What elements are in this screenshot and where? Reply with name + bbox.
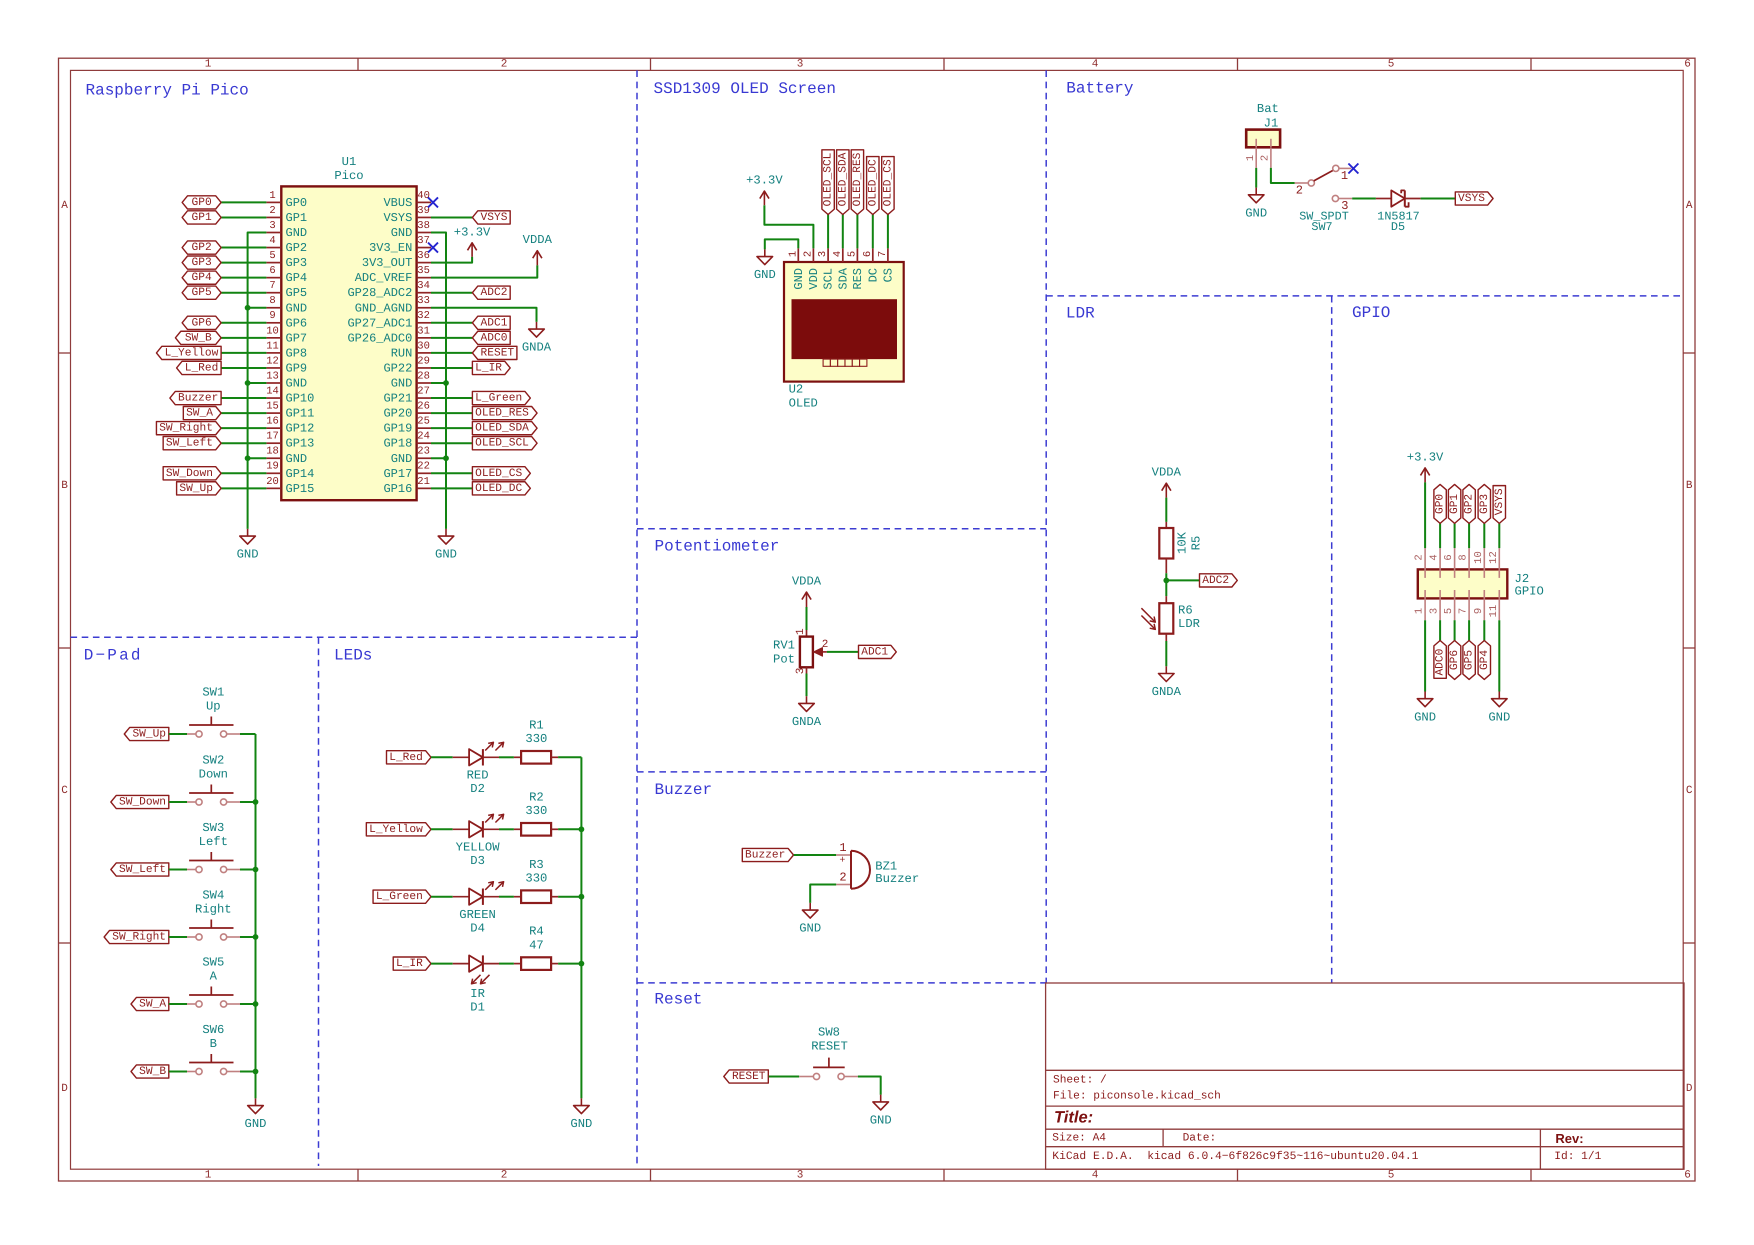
buzzer BZ1 bbox=[836, 854, 851, 856]
wire ADC_VREF to VDDA bbox=[431, 265, 537, 277]
svg-text:GP2: GP2 bbox=[192, 242, 212, 254]
global label L_IR bbox=[472, 361, 510, 374]
svg-text:18: 18 bbox=[266, 446, 279, 458]
wire OLED GND bbox=[765, 239, 799, 249]
wire L_IR to D1 bbox=[431, 963, 453, 965]
power VDDA (pot) bbox=[806, 592, 808, 607]
svg-text:OLED_SCL: OLED_SCL bbox=[823, 152, 835, 206]
section divider Battery bottom bbox=[1046, 295, 1683, 297]
svg-text:25: 25 bbox=[417, 416, 430, 428]
wire pin 19 to label SW_Down bbox=[221, 472, 266, 474]
junction D-Pad bus bbox=[253, 1069, 259, 1075]
U2 pins 1-7 bbox=[797, 248, 799, 262]
junction pin 28 bbox=[443, 380, 449, 386]
power +3.3V (GPIO) bbox=[1424, 482, 1426, 548]
wire right GND bus bbox=[431, 233, 446, 529]
svg-text:GP4: GP4 bbox=[286, 271, 308, 285]
wire SW3 to bus bbox=[227, 869, 241, 871]
svg-text:ADC0: ADC0 bbox=[1435, 648, 1447, 675]
svg-text:2: 2 bbox=[1296, 183, 1303, 197]
junction pin 13 bbox=[245, 380, 251, 386]
svg-text:VSYS: VSYS bbox=[383, 211, 412, 225]
J2 top pins 2,4,6,8,10,12 bbox=[1424, 548, 1426, 569]
svg-text:12: 12 bbox=[1488, 551, 1500, 564]
svg-text:Sheet: /: Sheet: / bbox=[1053, 1073, 1107, 1086]
svg-text:GND: GND bbox=[435, 548, 457, 562]
svg-text:GND: GND bbox=[391, 452, 413, 466]
J2 GPIO body bbox=[1418, 569, 1508, 598]
svg-text:VSYS: VSYS bbox=[1494, 488, 1506, 515]
svg-text:GP12: GP12 bbox=[286, 422, 315, 436]
svg-text:1: 1 bbox=[205, 59, 212, 71]
svg-text:32: 32 bbox=[417, 310, 430, 322]
svg-text:ADC_VREF: ADC_VREF bbox=[355, 271, 413, 285]
svg-text:LDR: LDR bbox=[1066, 304, 1095, 322]
svg-text:3: 3 bbox=[797, 1169, 804, 1181]
wire R6 to GNDA bbox=[1165, 641, 1167, 666]
LED D2 RED bbox=[453, 756, 469, 758]
wire pin 25 to label OLED_SDA bbox=[431, 427, 472, 429]
no-connect bbox=[428, 243, 438, 253]
junction D-Pad bus bbox=[253, 867, 259, 873]
svg-text:330: 330 bbox=[525, 732, 547, 746]
svg-text:5: 5 bbox=[1388, 59, 1395, 71]
wire Buzzer to BZ1 pin1 bbox=[794, 854, 836, 856]
svg-text:LEDs: LEDs bbox=[334, 647, 372, 665]
power VDDA (U1) bbox=[536, 251, 538, 266]
title block outline bbox=[1046, 983, 1684, 1169]
svg-text:GP13: GP13 bbox=[286, 437, 315, 451]
global label L_Green (led) bbox=[373, 890, 431, 903]
svg-text:GP2: GP2 bbox=[1464, 494, 1476, 514]
U2 OLED body bbox=[784, 262, 904, 382]
svg-text:A: A bbox=[210, 970, 218, 984]
svg-text:26: 26 bbox=[417, 401, 430, 413]
section divider LDR|GPIO bbox=[1331, 296, 1333, 983]
svg-text:4: 4 bbox=[1092, 1169, 1099, 1181]
svg-text:Pico: Pico bbox=[334, 169, 363, 183]
wire GND pin 8 bbox=[248, 307, 267, 309]
global label SW_B bbox=[175, 331, 221, 344]
switch SW3 Left bbox=[196, 866, 202, 872]
svg-text:D1: D1 bbox=[470, 1001, 485, 1015]
svg-text:RV1: RV1 bbox=[773, 639, 795, 653]
J1 Bat connector body bbox=[1246, 130, 1280, 148]
svg-text:SW_A: SW_A bbox=[139, 999, 166, 1011]
svg-text:SW4: SW4 bbox=[202, 888, 224, 902]
svg-text:1: 1 bbox=[1414, 608, 1426, 614]
svg-text:9: 9 bbox=[1473, 608, 1485, 614]
svg-text:2: 2 bbox=[822, 639, 829, 651]
svg-text:DC: DC bbox=[866, 268, 880, 282]
svg-text:GP0: GP0 bbox=[286, 196, 308, 210]
svg-text:SW1: SW1 bbox=[202, 685, 224, 699]
ground GND (GPIO pin1) bbox=[1424, 692, 1426, 699]
svg-text:OLED_DC: OLED_DC bbox=[475, 483, 522, 495]
svg-text:+3.3V: +3.3V bbox=[454, 225, 491, 239]
svg-text:IR: IR bbox=[470, 987, 485, 1001]
svg-text:U1: U1 bbox=[342, 155, 357, 169]
power +3.3V (U1) bbox=[471, 243, 473, 257]
svg-text:Size: A4: Size: A4 bbox=[1052, 1132, 1106, 1145]
frame column ticks bottom bbox=[357, 1169, 359, 1181]
resistor R6 LDR bbox=[1159, 603, 1173, 634]
ground GND (LEDs) bbox=[580, 1098, 582, 1105]
svg-text:6: 6 bbox=[269, 265, 275, 277]
wire pin 7 to label GP5 bbox=[221, 292, 266, 294]
svg-text:OLED_SCL: OLED_SCL bbox=[475, 438, 529, 450]
SW7 pin 3 bbox=[1332, 195, 1338, 201]
wire pin 15 to label SW_A bbox=[221, 412, 266, 414]
section divider D-Pad/LEDs top bbox=[71, 636, 638, 638]
svg-text:37: 37 bbox=[417, 235, 430, 247]
wire J2 bottom GP6 bbox=[1454, 620, 1456, 640]
svg-text:28: 28 bbox=[417, 370, 430, 382]
wire pin 27 to label L_Green bbox=[431, 397, 472, 399]
U1 Pico body bbox=[281, 186, 416, 500]
svg-text:GND: GND bbox=[391, 226, 413, 240]
frame row ticks left bbox=[59, 352, 71, 354]
svg-text:File: piconsole.kicad_sch: File: piconsole.kicad_sch bbox=[1053, 1090, 1221, 1103]
svg-text:GP8: GP8 bbox=[286, 346, 308, 360]
section divider vertical x=1046 bbox=[1045, 70, 1047, 983]
svg-text:B: B bbox=[61, 480, 68, 492]
J1 pin 2 bbox=[1270, 147, 1272, 168]
svg-text:ADC1: ADC1 bbox=[481, 317, 508, 329]
wire D5 to VSYS bbox=[1421, 198, 1456, 200]
wire SW_Down to SW2 bbox=[169, 801, 187, 803]
R6 bottom stub bbox=[1165, 634, 1167, 641]
svg-text:GND: GND bbox=[570, 1117, 592, 1131]
svg-text:15: 15 bbox=[266, 401, 279, 413]
svg-text:6: 6 bbox=[1684, 59, 1691, 71]
svg-text:9: 9 bbox=[269, 310, 275, 322]
wire pin 29 to label L_IR bbox=[431, 367, 472, 369]
wire R4 to bus bbox=[551, 963, 558, 965]
wire pin 14 to label Buzzer bbox=[221, 397, 266, 399]
svg-text:1: 1 bbox=[839, 841, 846, 855]
svg-text:GP3: GP3 bbox=[1479, 494, 1491, 514]
wire J2 bottom GP4 bbox=[1483, 620, 1485, 640]
svg-text:GND: GND bbox=[792, 268, 806, 290]
svg-text:GND: GND bbox=[286, 452, 308, 466]
junction D-Pad bus bbox=[253, 799, 259, 805]
global label ADC0 (GPIO) bbox=[1434, 641, 1446, 679]
svg-text:Id: 1/1: Id: 1/1 bbox=[1554, 1150, 1601, 1163]
ground GND (reset) bbox=[880, 1095, 882, 1102]
wire pin 21 to label OLED_DC bbox=[431, 487, 472, 489]
wire pin 34 to label ADC2 bbox=[431, 292, 472, 294]
R6 top stub bbox=[1165, 596, 1167, 603]
wire OLED_SDA bbox=[842, 215, 844, 249]
svg-text:GP4: GP4 bbox=[1479, 650, 1491, 670]
wire OLED_RES bbox=[856, 215, 858, 249]
svg-text:Potentiometer: Potentiometer bbox=[655, 538, 780, 556]
svg-text:3: 3 bbox=[817, 251, 829, 257]
global label Buzzer label bbox=[742, 848, 793, 861]
global label SW_B (dpad) bbox=[131, 1065, 169, 1078]
svg-text:GP5: GP5 bbox=[192, 287, 212, 299]
svg-text:Buzzer: Buzzer bbox=[875, 872, 919, 886]
wire OLED VDD to +3.3V bbox=[764, 205, 813, 248]
svg-text:L_IR: L_IR bbox=[396, 958, 423, 970]
svg-text:10K: 10K bbox=[1176, 531, 1190, 554]
svg-text:GP18: GP18 bbox=[383, 437, 412, 451]
svg-text:3: 3 bbox=[797, 59, 804, 71]
svg-text:SW8: SW8 bbox=[818, 1026, 840, 1040]
wire D2 to R1 bbox=[499, 756, 514, 758]
svg-text:GP1: GP1 bbox=[286, 211, 308, 225]
wire left GND bus bbox=[248, 233, 267, 529]
wire RESET to SW8 bbox=[769, 1076, 799, 1078]
wire pin 17 to label SW_Left bbox=[221, 442, 266, 444]
switch SW6 B bbox=[196, 1068, 202, 1074]
junction pin 18 bbox=[245, 455, 251, 461]
svg-text:OLED_SDA: OLED_SDA bbox=[837, 152, 849, 206]
R5 top stub bbox=[1165, 522, 1167, 528]
svg-text:35: 35 bbox=[417, 265, 430, 277]
wire J2 pin1 to GND bbox=[1424, 620, 1426, 691]
U1 right pins 40-21 bbox=[417, 201, 431, 203]
RV1 pin1 stub bbox=[806, 630, 808, 637]
wire J2 top GP2 bbox=[1468, 523, 1470, 548]
svg-text:OLED_DC: OLED_DC bbox=[867, 159, 879, 206]
global label VSYS (battery) bbox=[1455, 192, 1493, 205]
junction LED bus bbox=[579, 894, 585, 900]
LED D1 IR bbox=[453, 963, 469, 965]
svg-text:SW_B: SW_B bbox=[185, 332, 212, 344]
wire SW_Up to SW1 bbox=[169, 733, 187, 735]
J2 bottom pins 1,3,5,7,9,11 bbox=[1424, 598, 1426, 620]
wire J2 bottom GP5 bbox=[1468, 620, 1470, 640]
potentiometer RV1 body bbox=[800, 637, 813, 668]
svg-text:Right: Right bbox=[195, 903, 232, 917]
svg-text:SW_Right: SW_Right bbox=[159, 422, 213, 435]
svg-text:10: 10 bbox=[1473, 551, 1485, 564]
global label GP3 (GPIO) bbox=[1478, 484, 1490, 523]
svg-text:VDDA: VDDA bbox=[523, 233, 553, 247]
svg-text:OLED_RES: OLED_RES bbox=[475, 408, 529, 420]
RV1 wiper arrow bbox=[818, 651, 827, 653]
wire J2 pin11 to GND bbox=[1498, 620, 1500, 691]
wire J1 pin1 to GND bbox=[1255, 168, 1257, 188]
wire R1 to bus bbox=[551, 756, 558, 758]
svg-text:1: 1 bbox=[1341, 169, 1348, 183]
wire pin 11 to label L_Yellow bbox=[221, 352, 266, 354]
svg-text:17: 17 bbox=[266, 431, 279, 443]
wire D-Pad GND bus bbox=[255, 734, 257, 1098]
global label GP4 (GPIO) bbox=[1478, 641, 1490, 680]
wire R5 to R6 node bbox=[1165, 573, 1167, 596]
global label SW_Right (dpad) bbox=[104, 930, 169, 943]
svg-text:47: 47 bbox=[529, 939, 544, 953]
global label OLED_SCL bbox=[822, 150, 834, 215]
ground GNDA (pot) bbox=[806, 696, 808, 703]
svg-text:11: 11 bbox=[1488, 605, 1500, 618]
svg-text:GND: GND bbox=[870, 1114, 892, 1128]
svg-text:1: 1 bbox=[795, 628, 807, 635]
wire OLED_DC bbox=[872, 215, 874, 249]
svg-text:Buzzer: Buzzer bbox=[178, 393, 218, 405]
wire GND_AGND to GNDA bbox=[431, 308, 537, 322]
svg-text:SW_A: SW_A bbox=[186, 408, 213, 420]
svg-text:RED: RED bbox=[467, 769, 489, 783]
wire pin 6 to label GP4 bbox=[221, 277, 266, 279]
svg-text:11: 11 bbox=[266, 340, 279, 352]
U2 OLED screen area bbox=[792, 299, 898, 359]
junction ADC2 node bbox=[1163, 578, 1169, 584]
wire GND pin 28 bbox=[431, 382, 446, 384]
svg-text:330: 330 bbox=[525, 804, 547, 818]
switch SW2 Down bbox=[196, 799, 202, 805]
global label SW_Up bbox=[177, 482, 222, 495]
svg-text:SW_Left: SW_Left bbox=[166, 437, 213, 450]
wire J2 top VSYS bbox=[1498, 523, 1500, 548]
global label L_Red bbox=[177, 361, 222, 374]
svg-text:GNDA: GNDA bbox=[1152, 685, 1182, 699]
svg-text:31: 31 bbox=[417, 325, 430, 337]
svg-text:R1: R1 bbox=[529, 718, 544, 732]
svg-text:13: 13 bbox=[266, 370, 279, 382]
svg-text:+3.3V: +3.3V bbox=[746, 174, 783, 188]
svg-text:GND: GND bbox=[1414, 710, 1436, 724]
svg-text:GREEN: GREEN bbox=[459, 908, 496, 922]
frame column ticks top bbox=[357, 58, 359, 70]
global label OLED_DC bbox=[472, 482, 530, 495]
J1 pin 1 bbox=[1255, 147, 1257, 168]
svg-text:GND: GND bbox=[237, 548, 259, 562]
svg-text:5: 5 bbox=[846, 251, 858, 257]
svg-text:GP0: GP0 bbox=[192, 197, 212, 209]
svg-text:10: 10 bbox=[266, 325, 279, 337]
svg-text:SW_Up: SW_Up bbox=[179, 483, 213, 495]
svg-text:21: 21 bbox=[417, 476, 430, 488]
svg-text:R4: R4 bbox=[529, 925, 544, 939]
global label GP4 bbox=[182, 271, 221, 284]
RV1 pin3 stub bbox=[806, 667, 808, 673]
svg-text:GP26_ADC0: GP26_ADC0 bbox=[347, 331, 412, 345]
svg-text:C: C bbox=[1686, 785, 1693, 797]
svg-text:38: 38 bbox=[417, 220, 430, 232]
resistor R3 330 bbox=[521, 890, 551, 903]
svg-text:SDA: SDA bbox=[836, 267, 850, 289]
ground GND U1 left bbox=[247, 529, 249, 536]
junction pin 8 bbox=[245, 305, 251, 311]
svg-text:GNDA: GNDA bbox=[522, 341, 552, 355]
global label ADC0 bbox=[472, 331, 510, 344]
global label RESET bbox=[472, 346, 517, 359]
svg-text:LDR: LDR bbox=[1178, 617, 1200, 631]
svg-text:GNDA: GNDA bbox=[792, 715, 822, 729]
svg-text:L_Red: L_Red bbox=[389, 751, 423, 764]
svg-text:GP15: GP15 bbox=[286, 482, 315, 496]
ground GND U1 right bbox=[445, 529, 447, 536]
R6 LDR arrows bbox=[1141, 608, 1155, 622]
svg-text:6: 6 bbox=[1684, 1169, 1691, 1181]
svg-text:GP4: GP4 bbox=[192, 272, 212, 284]
svg-text:GND: GND bbox=[799, 922, 821, 936]
svg-text:SW5: SW5 bbox=[202, 955, 224, 969]
wire pin 2 to label GP1 bbox=[221, 216, 266, 218]
power VDDA (LDR) bbox=[1165, 483, 1167, 497]
wire SW_B to SW6 bbox=[169, 1071, 187, 1073]
global label GP6 bbox=[182, 316, 221, 329]
svg-text:Raspberry Pi Pico: Raspberry Pi Pico bbox=[86, 82, 249, 100]
svg-text:VSYS: VSYS bbox=[1458, 193, 1485, 205]
svg-text:SW_Right: SW_Right bbox=[112, 931, 166, 944]
svg-text:KiCad E.D.A. kicad 6.0.4−6f82: KiCad E.D.A. kicad 6.0.4−6f826c9f35~116~… bbox=[1052, 1150, 1418, 1163]
svg-text:GP6: GP6 bbox=[192, 317, 212, 329]
wire OLED_SCL bbox=[827, 215, 829, 249]
svg-text:1: 1 bbox=[205, 1169, 212, 1181]
svg-text:Down: Down bbox=[199, 768, 228, 782]
svg-text:+: + bbox=[839, 855, 845, 866]
svg-text:12: 12 bbox=[266, 355, 279, 367]
svg-text:D5: D5 bbox=[1391, 220, 1405, 234]
svg-text:GP19: GP19 bbox=[383, 422, 412, 436]
svg-text:D3: D3 bbox=[470, 854, 485, 868]
ground GNDA (LDR) bbox=[1165, 666, 1167, 673]
global label RESET label bbox=[724, 1070, 769, 1083]
svg-text:GP5: GP5 bbox=[286, 286, 308, 300]
wire SW7 pin3 to D5 bbox=[1352, 198, 1376, 200]
svg-text:SCL: SCL bbox=[822, 268, 836, 290]
svg-text:L_Green: L_Green bbox=[475, 393, 522, 405]
svg-text:Bat: Bat bbox=[1257, 102, 1279, 116]
wire OLED_CS bbox=[887, 215, 889, 249]
svg-text:GPIO: GPIO bbox=[1352, 304, 1390, 322]
svg-text:OLED: OLED bbox=[789, 396, 818, 410]
wire J2 bottom ADC0 bbox=[1439, 620, 1441, 640]
svg-text:Buzzer: Buzzer bbox=[745, 850, 785, 862]
svg-text:GP10: GP10 bbox=[286, 392, 315, 406]
svg-text:GP2: GP2 bbox=[286, 241, 308, 255]
svg-text:ADC0: ADC0 bbox=[481, 332, 508, 344]
global label ADC1 bbox=[472, 316, 510, 329]
wire pin 22 to label OLED_CS bbox=[431, 472, 472, 474]
global label SW_Up (dpad) bbox=[124, 727, 169, 740]
wire D4 to R3 bbox=[499, 896, 514, 898]
svg-text:Battery: Battery bbox=[1066, 80, 1134, 98]
wire GND pin 23 bbox=[431, 457, 446, 459]
global label L_Yellow (led) bbox=[366, 823, 431, 836]
svg-text:GND: GND bbox=[286, 301, 308, 315]
svg-text:GP16: GP16 bbox=[383, 482, 412, 496]
global label GP1 bbox=[182, 211, 221, 224]
svg-text:GP11: GP11 bbox=[286, 407, 315, 421]
svg-text:OLED_CS: OLED_CS bbox=[475, 468, 522, 480]
svg-text:R6: R6 bbox=[1178, 604, 1193, 618]
global label OLED_CS bbox=[472, 467, 530, 480]
wire BZ1 pin2 to GND bbox=[810, 885, 836, 903]
svg-text:40: 40 bbox=[417, 190, 430, 202]
LED D3 YELLOW bbox=[453, 828, 469, 830]
global label OLED_SCL bbox=[472, 437, 537, 450]
svg-text:2: 2 bbox=[1414, 554, 1426, 560]
svg-text:2: 2 bbox=[839, 870, 846, 884]
svg-text:B: B bbox=[1686, 480, 1693, 492]
wire LED GND bus bbox=[580, 757, 582, 1098]
svg-text:30: 30 bbox=[417, 340, 430, 352]
svg-text:Buzzer: Buzzer bbox=[655, 781, 713, 799]
svg-text:VDDA: VDDA bbox=[792, 575, 822, 589]
svg-text:D−Pad: D−Pad bbox=[84, 647, 143, 665]
svg-text:GP0: GP0 bbox=[1435, 494, 1447, 514]
wire pin 16 to label SW_Right bbox=[221, 427, 266, 429]
svg-text:J1: J1 bbox=[1264, 116, 1279, 130]
wire GND pin 13 bbox=[248, 382, 267, 384]
svg-text:Up: Up bbox=[206, 700, 221, 714]
